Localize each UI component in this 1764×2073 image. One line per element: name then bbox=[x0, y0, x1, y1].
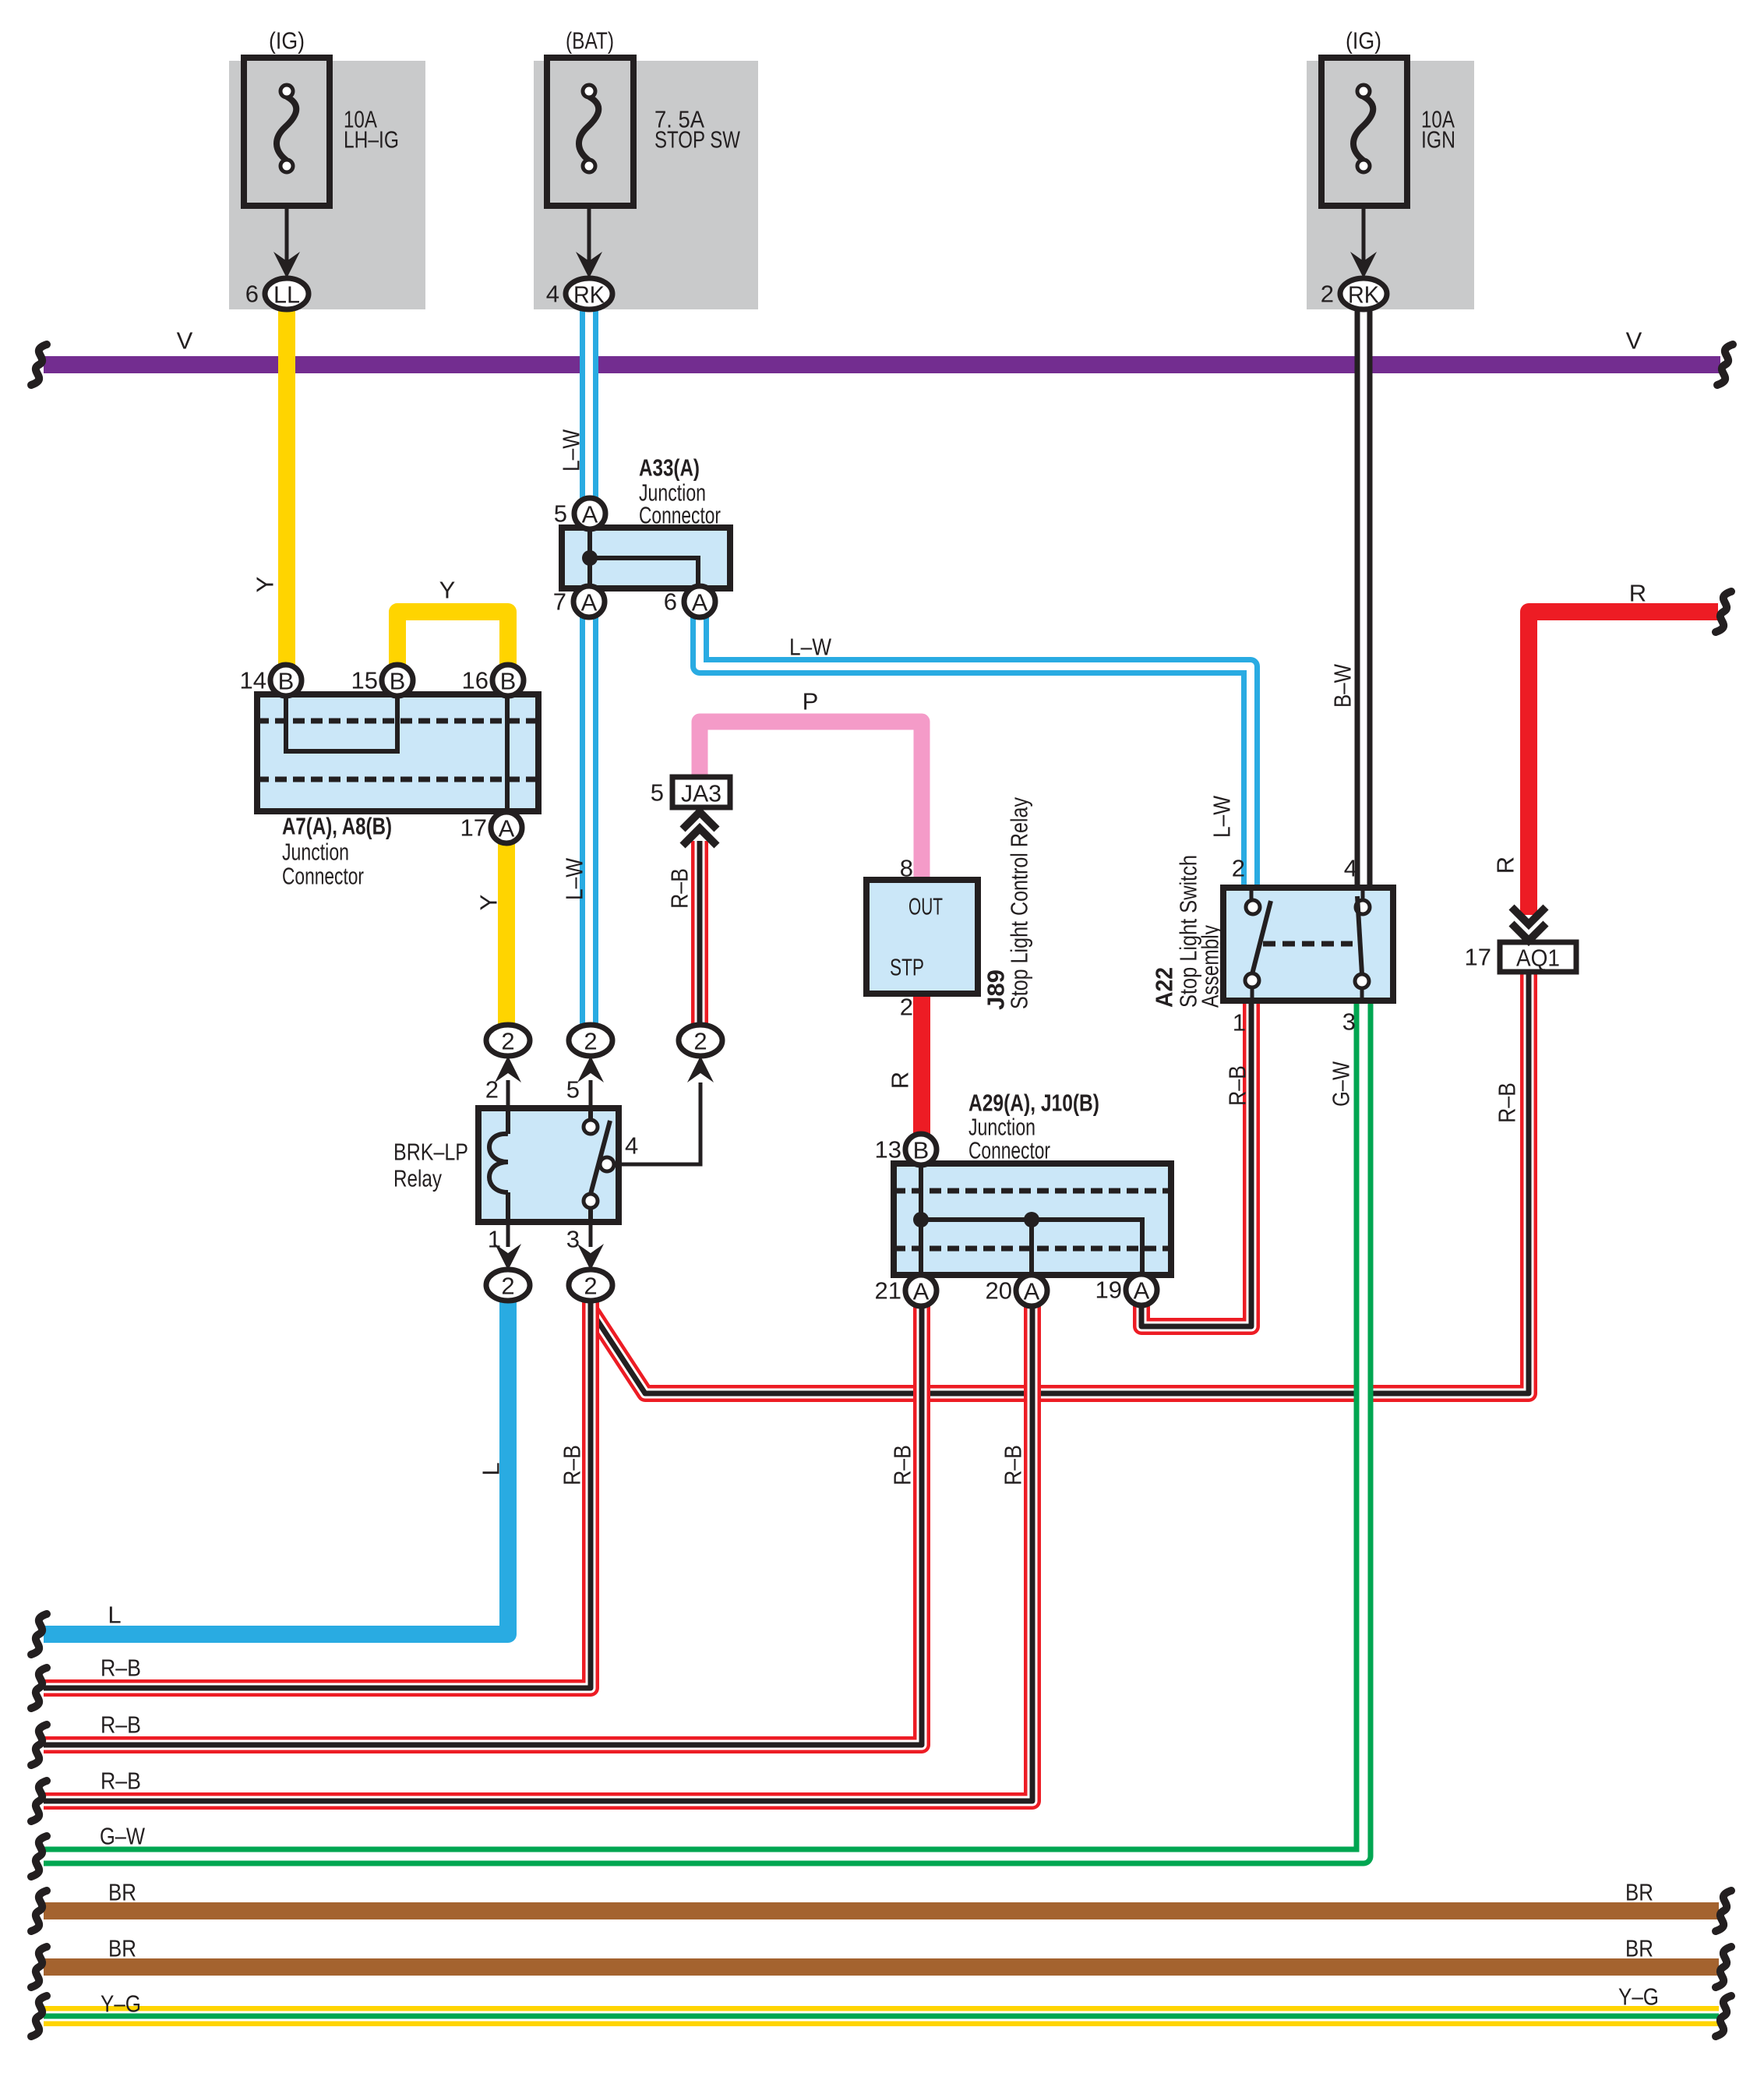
connector oval 6 LL bbox=[245, 278, 309, 309]
svg-text:19: 19 bbox=[1095, 1277, 1122, 1304]
svg-text:2: 2 bbox=[501, 1028, 514, 1055]
svg-text:STOP SW: STOP SW bbox=[654, 126, 741, 154]
svg-text:BR: BR bbox=[108, 1879, 136, 1906]
svg-text:4: 4 bbox=[1344, 855, 1357, 882]
fuse block background left bbox=[229, 61, 425, 309]
svg-text:BR: BR bbox=[1625, 1935, 1653, 1962]
pin 16 B of A7 bbox=[462, 665, 524, 696]
wire Y fuse LH-IG to A7 pin 14 bbox=[278, 308, 295, 666]
svg-text:B: B bbox=[390, 668, 406, 695]
svg-text:2: 2 bbox=[501, 1273, 514, 1300]
svg-text:L–W: L–W bbox=[1208, 795, 1236, 838]
wire Y-G bbox=[44, 2006, 1719, 2026]
label A29(A), J10(B) Junction Connector bbox=[968, 1089, 1099, 1164]
connector oval 2 on relay pin 4 bbox=[679, 1025, 722, 1056]
svg-text:P: P bbox=[803, 688, 819, 715]
svg-text:6: 6 bbox=[664, 588, 677, 616]
wire relay pin 2 stub bbox=[506, 1080, 510, 1108]
pin 19 A of A29 bbox=[1095, 1274, 1157, 1305]
svg-text:Y–G: Y–G bbox=[1618, 1983, 1659, 2011]
svg-text:RK: RK bbox=[1348, 281, 1379, 309]
svg-text:Assembly: Assembly bbox=[1197, 925, 1224, 1008]
svg-text:2: 2 bbox=[693, 1028, 707, 1055]
svg-text:A29(A), J10(B): A29(A), J10(B) bbox=[968, 1089, 1099, 1117]
pin 17 A of A7 bbox=[460, 812, 522, 843]
svg-text:AQ1: AQ1 bbox=[1516, 945, 1560, 972]
break symbol BR 2 right bbox=[1716, 1947, 1731, 1987]
svg-text:2: 2 bbox=[1321, 281, 1334, 308]
arrow down into oval below relay pin 1 bbox=[495, 1244, 521, 1270]
svg-text:17: 17 bbox=[1465, 944, 1491, 971]
pin 6 A of A33 bbox=[664, 586, 715, 617]
label BRK-LP Relay bbox=[393, 1139, 468, 1192]
svg-text:20: 20 bbox=[986, 1277, 1012, 1305]
svg-text:R–B: R–B bbox=[1224, 1065, 1251, 1106]
connector oval 2 above relay pin 2 bbox=[486, 1025, 530, 1056]
break symbol R-B 3 left bbox=[31, 1781, 47, 1821]
svg-text:16: 16 bbox=[462, 667, 489, 694]
fuse block background right bbox=[1307, 61, 1474, 309]
break symbol R-B 1 left bbox=[31, 1668, 47, 1708]
svg-text:A: A bbox=[582, 501, 598, 528]
wire P JA3 to J89 pin 8 bbox=[700, 722, 922, 880]
chevron arrow into AQ1 bbox=[1512, 907, 1546, 941]
svg-text:1: 1 bbox=[488, 1226, 501, 1253]
svg-text:R–B: R–B bbox=[666, 868, 693, 909]
wire L-W A33 pin 6 to A22 pin 2 bbox=[700, 617, 1251, 888]
svg-text:BR: BR bbox=[1625, 1879, 1653, 1906]
fuse 7.5A STOP SW bbox=[547, 58, 633, 278]
svg-text:B: B bbox=[913, 1137, 930, 1164]
svg-text:2: 2 bbox=[584, 1273, 597, 1300]
connector oval 2 RK bbox=[1321, 278, 1387, 309]
wire Y jumper A7 pin 15 to pin 16 bbox=[397, 612, 508, 667]
wire L relay pin 1 connector to left break bbox=[44, 1300, 508, 1634]
svg-text:Y: Y bbox=[475, 895, 503, 911]
svg-text:RK: RK bbox=[573, 281, 605, 309]
wire R-B relay pin 3 branch to AQ1 bbox=[591, 972, 1529, 1393]
wire relay pin 1 stub bbox=[506, 1222, 510, 1247]
svg-text:(IG): (IG) bbox=[269, 27, 305, 55]
svg-text:Connector: Connector bbox=[282, 863, 364, 890]
svg-text:15: 15 bbox=[351, 667, 378, 694]
pin 21 A of A29 bbox=[875, 1275, 937, 1306]
break symbol Y-G right bbox=[1716, 1996, 1731, 2036]
label A33(A) Junction Connector bbox=[639, 454, 721, 529]
svg-text:21: 21 bbox=[875, 1277, 901, 1305]
svg-text:Stop Light Control Relay: Stop Light Control Relay bbox=[1006, 797, 1033, 1009]
wire G-W A22 pin 3 to left break bbox=[44, 1001, 1364, 1856]
svg-text:STP: STP bbox=[890, 954, 924, 981]
connector oval 2 above relay pin 5 bbox=[569, 1025, 612, 1056]
svg-text:3: 3 bbox=[1342, 1008, 1356, 1036]
break symbol V right bbox=[1717, 344, 1733, 385]
connector oval 2 below relay pin 3 bbox=[569, 1270, 612, 1301]
svg-text:R–B: R–B bbox=[1000, 1445, 1027, 1485]
svg-text:L–W: L–W bbox=[561, 857, 588, 900]
wire L-W A33 pin 7 down to relay connector bbox=[580, 617, 598, 1026]
svg-text:3: 3 bbox=[566, 1226, 580, 1253]
pin 15 B of A7 bbox=[351, 665, 413, 696]
svg-text:A33(A): A33(A) bbox=[639, 454, 700, 482]
svg-text:Relay: Relay bbox=[393, 1165, 442, 1192]
svg-text:Y: Y bbox=[252, 577, 279, 593]
svg-text:A: A bbox=[1024, 1278, 1040, 1305]
wire R-B JA3 chevron to relay connector bbox=[691, 841, 708, 1026]
svg-text:Connector: Connector bbox=[968, 1137, 1050, 1164]
svg-text:17: 17 bbox=[460, 814, 487, 842]
svg-text:A: A bbox=[1134, 1277, 1150, 1305]
wire relay pin 5 stub bbox=[589, 1080, 593, 1108]
svg-text:V: V bbox=[177, 327, 193, 355]
svg-text:R: R bbox=[1492, 856, 1519, 874]
arrow up into oval on relay pin 4 line bbox=[687, 1056, 714, 1082]
junction connector A33(A) bbox=[562, 528, 730, 588]
break symbol R right bbox=[1716, 592, 1731, 632]
wire relay pin 3 stub bbox=[589, 1222, 593, 1247]
pin 20 A of A29 bbox=[986, 1275, 1047, 1306]
chevron arrow below JA3 bbox=[683, 812, 717, 846]
svg-text:B–W: B–W bbox=[1329, 663, 1357, 708]
svg-text:(IG): (IG) bbox=[1346, 27, 1381, 55]
svg-text:6: 6 bbox=[245, 281, 259, 308]
svg-text:BRK–LP: BRK–LP bbox=[393, 1139, 468, 1166]
break symbol BR 1 right bbox=[1716, 1891, 1731, 1931]
wire L-W fuse STOP SW to A33 pin 5 bbox=[580, 309, 598, 499]
wire Y A7 pin 17 down to relay connector bbox=[498, 842, 515, 1026]
wire R-B A29 pin 19 to A22 pin 1 bbox=[1141, 1001, 1251, 1326]
svg-text:A7(A), A8(B): A7(A), A8(B) bbox=[282, 813, 392, 840]
svg-text:(BAT): (BAT) bbox=[566, 27, 614, 55]
svg-text:R–B: R–B bbox=[1494, 1082, 1521, 1123]
pin 7 A of A33 bbox=[553, 586, 605, 617]
svg-text:A22: A22 bbox=[1151, 967, 1178, 1008]
svg-text:5: 5 bbox=[566, 1076, 580, 1104]
svg-text:L: L bbox=[478, 1462, 505, 1475]
svg-text:2: 2 bbox=[485, 1076, 499, 1104]
break symbol BR 2 left bbox=[31, 1947, 47, 1987]
wire R-B A29 pin 20 to left break bbox=[44, 1306, 1032, 1801]
bus V (violet) bbox=[44, 356, 1720, 373]
svg-text:2: 2 bbox=[900, 994, 913, 1021]
svg-text:R–B: R–B bbox=[101, 1711, 141, 1739]
connector oval 4 RK bbox=[546, 278, 612, 309]
svg-text:14: 14 bbox=[240, 667, 266, 694]
svg-text:L: L bbox=[108, 1602, 121, 1629]
svg-text:5: 5 bbox=[651, 779, 664, 807]
wire B-W fuse IGN to A22 pin 4 bbox=[1355, 309, 1373, 888]
arrow down into oval below relay pin 3 bbox=[577, 1244, 604, 1270]
svg-text:Y: Y bbox=[439, 577, 456, 604]
svg-text:A: A bbox=[581, 589, 598, 616]
svg-text:LH–IG: LH–IG bbox=[344, 126, 399, 154]
pin 5 A of A33 bbox=[554, 498, 605, 529]
svg-text:Junction: Junction bbox=[282, 839, 349, 866]
svg-text:13: 13 bbox=[875, 1136, 901, 1164]
wire BR upper bbox=[44, 1902, 1719, 1919]
junction connector A7(A), A8(B) bbox=[257, 694, 538, 811]
svg-text:R: R bbox=[887, 1072, 914, 1089]
svg-text:5: 5 bbox=[554, 500, 567, 528]
svg-text:G–W: G–W bbox=[100, 1823, 146, 1850]
wire BR lower bbox=[44, 1958, 1719, 1976]
svg-text:8: 8 bbox=[900, 855, 913, 882]
svg-text:1: 1 bbox=[1233, 1009, 1246, 1036]
break symbol BR 1 left bbox=[31, 1891, 47, 1931]
fuse 10A LH-IG bbox=[244, 58, 330, 278]
svg-text:B: B bbox=[278, 668, 295, 695]
arrow up into oval above relay pin 2 bbox=[495, 1056, 521, 1082]
connector JA3 bbox=[651, 777, 730, 807]
svg-text:LL: LL bbox=[273, 281, 300, 309]
svg-text:R–B: R–B bbox=[559, 1445, 586, 1485]
svg-text:4: 4 bbox=[625, 1132, 638, 1160]
svg-text:G–W: G–W bbox=[1328, 1061, 1355, 1107]
svg-text:R–B: R–B bbox=[101, 1768, 141, 1795]
fuse block background middle bbox=[534, 61, 758, 309]
svg-text:V: V bbox=[1626, 327, 1642, 355]
junction connector A29(A), J10(B) bbox=[894, 1164, 1171, 1275]
svg-text:L–W: L–W bbox=[789, 634, 832, 661]
svg-text:A: A bbox=[692, 589, 708, 616]
arrow up into oval above relay pin 5 bbox=[577, 1056, 604, 1082]
pin 14 B of A7 bbox=[240, 665, 302, 696]
label 10A IGN bbox=[1421, 106, 1455, 154]
relay J89 bbox=[866, 880, 978, 994]
svg-text:2: 2 bbox=[1232, 855, 1245, 882]
connector AQ1 bbox=[1465, 942, 1576, 972]
svg-text:BR: BR bbox=[108, 1935, 136, 1962]
svg-text:R–B: R–B bbox=[101, 1655, 141, 1682]
svg-text:R–B: R–B bbox=[889, 1445, 916, 1485]
svg-text:4: 4 bbox=[546, 281, 559, 308]
wire R from right break to AQ1 bbox=[1529, 612, 1718, 915]
wire R-B relay pin 3 connector down to left break bbox=[44, 1300, 591, 1688]
svg-text:B: B bbox=[500, 668, 517, 695]
break symbol G-W left bbox=[31, 1836, 47, 1877]
connector oval 2 below relay pin 1 bbox=[486, 1270, 530, 1301]
break symbol R-B 2 left bbox=[31, 1725, 47, 1765]
pin 13 B of A29 bbox=[875, 1134, 937, 1165]
switch A22 bbox=[1223, 888, 1393, 1001]
svg-text:A: A bbox=[499, 815, 515, 842]
fuse 10A IGN bbox=[1321, 58, 1407, 278]
break symbol L left bbox=[31, 1614, 47, 1655]
svg-text:IGN: IGN bbox=[1421, 126, 1455, 154]
svg-text:JA3: JA3 bbox=[681, 780, 721, 807]
relay BRK-LP bbox=[478, 1108, 619, 1222]
svg-text:L–W: L–W bbox=[558, 429, 585, 471]
svg-text:2: 2 bbox=[584, 1028, 597, 1055]
label A7(A), A8(B) Junction Connector bbox=[282, 813, 392, 890]
svg-text:OUT: OUT bbox=[908, 893, 943, 920]
label 10A LH-IG bbox=[344, 106, 399, 154]
svg-text:R: R bbox=[1629, 580, 1646, 607]
svg-text:A: A bbox=[913, 1278, 930, 1305]
svg-text:Y–G: Y–G bbox=[101, 1990, 141, 2018]
break symbol Y-G left bbox=[31, 1996, 47, 2036]
wire relay pin 4 to connector oval bbox=[614, 1082, 700, 1164]
wire R-B A29 pin 21 to left break bbox=[44, 1306, 922, 1745]
break symbol V left bbox=[31, 344, 47, 385]
svg-text:7: 7 bbox=[553, 588, 566, 616]
label 7.5A STOP SW bbox=[654, 106, 741, 154]
svg-text:Connector: Connector bbox=[639, 502, 721, 529]
wire R J89 pin 2 to A29 pin 13 bbox=[913, 994, 930, 1134]
